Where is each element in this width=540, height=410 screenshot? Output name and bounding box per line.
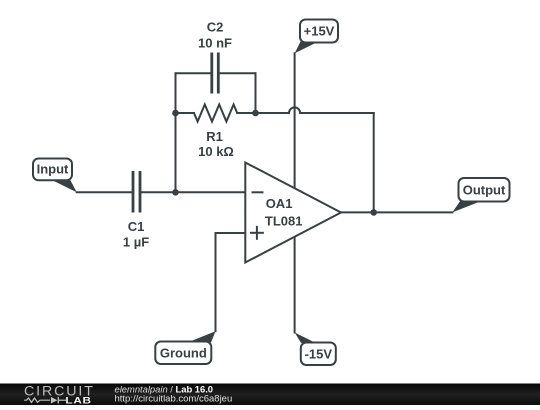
wire R1 right lead <box>237 112 255 114</box>
wire C1 to op-amp minus input <box>140 191 245 193</box>
node flag -15V <box>295 333 336 366</box>
svg-text:http://circuitlab.com/c6a8jeu: http://circuitlab.com/c6a8jeu <box>115 394 233 405</box>
wire output <box>341 211 452 213</box>
wire ground vertical <box>215 233 217 331</box>
wire feedback right vertical <box>373 113 375 212</box>
wire C2 right lead <box>218 72 255 74</box>
svg-text:TL081: TL081 <box>265 213 303 228</box>
wire C2 to R1 right vertical <box>255 73 257 113</box>
svg-text:10 kΩ: 10 kΩ <box>198 144 234 159</box>
node flag +15V <box>295 20 338 54</box>
svg-text:+15V: +15V <box>304 24 335 39</box>
wire input to C1 <box>77 191 133 193</box>
node A junction dot (input/feedback) <box>172 189 179 196</box>
label C2 value <box>198 20 232 51</box>
node junction dot output <box>370 209 377 216</box>
node junction dot R1 right <box>252 110 259 117</box>
wire -15V supply <box>294 237 296 333</box>
svg-text:Output: Output <box>463 182 506 197</box>
logo diode symbol <box>51 397 58 404</box>
op-amp minus symbol <box>252 191 264 193</box>
node junction dot R1 left <box>172 110 179 117</box>
svg-text:1 µF: 1 µF <box>123 234 149 249</box>
svg-text:C2: C2 <box>207 20 224 35</box>
svg-text:-15V: -15V <box>305 346 333 361</box>
label OA1 TL081 <box>265 196 303 228</box>
svg-text:Ground: Ground <box>160 345 207 360</box>
wire +15V supply <box>294 53 296 188</box>
wire C2 left lead <box>176 72 212 74</box>
svg-text:OA1: OA1 <box>266 196 293 211</box>
svg-text:C1: C1 <box>128 219 145 234</box>
op-amp plus symbol <box>250 226 264 240</box>
capacitor C2 plates <box>212 53 219 94</box>
svg-text:R1: R1 <box>206 129 223 144</box>
node flag Output <box>452 178 509 212</box>
capacitor C1 plates <box>133 171 140 213</box>
op-amp OA1 triangle <box>245 163 341 263</box>
wire plus input horizontal <box>216 232 246 234</box>
svg-text:Input: Input <box>37 162 69 177</box>
wire R1 left lead <box>176 112 195 114</box>
node flag Ground <box>155 331 215 364</box>
node flag Input <box>33 159 77 193</box>
resistor R1 zigzag <box>194 105 237 122</box>
wire hop to feedback corner <box>300 112 374 114</box>
wire feedback left vertical <box>175 73 177 192</box>
wire hop over +15V line <box>289 107 300 113</box>
svg-text:LAB: LAB <box>65 397 91 405</box>
label C1 value <box>123 219 149 249</box>
svg-text:10 nF: 10 nF <box>198 35 232 50</box>
label R1 value <box>198 129 234 159</box>
logo resistor zigzag <box>24 398 50 402</box>
wire feedback horizontal to hop <box>256 112 290 114</box>
